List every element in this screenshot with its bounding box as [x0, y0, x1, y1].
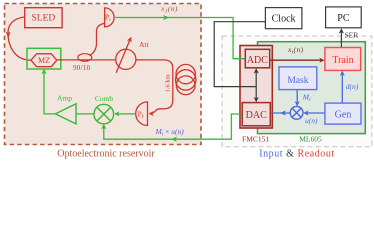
- fiber coil 1.6 km: [176, 64, 195, 83]
- svg-text:d(n): d(n): [346, 82, 359, 91]
- svg-text:DAC: DAC: [246, 110, 267, 121]
- wire Gen to multiplier blue: [304, 112, 325, 114]
- wire SER black Train to PC: [340, 29, 342, 47]
- Mask box: [279, 67, 317, 90]
- svg-text:SER: SER: [345, 31, 359, 40]
- wire MZ to Att red: [57, 59, 116, 61]
- arrowhead on SLED wire: [6, 32, 11, 39]
- wire clock to ADC and DAC: [255, 69, 257, 86]
- wire clock black: [214, 22, 265, 87]
- wire Att to P_f red with fiber spool: [136, 60, 173, 114]
- DAC box: [242, 103, 270, 126]
- PC box: [326, 7, 362, 28]
- svg-text:Mi × u(n): Mi × u(n): [155, 127, 185, 138]
- svg-text:Input & Readout: Input & Readout: [259, 149, 334, 160]
- optoelectronic reservoir dashed box: [5, 4, 202, 145]
- 90/10 coupler loop: [78, 54, 92, 62]
- svg-text:MZ: MZ: [38, 56, 50, 65]
- svg-text:FMC151: FMC151: [242, 134, 269, 143]
- svg-text:Mask: Mask: [287, 76, 308, 86]
- svg-text:1.6 km: 1.6 km: [164, 74, 171, 92]
- svg-text:Gen: Gen: [335, 109, 352, 120]
- wire x1(n) green P_r to ADC: [115, 18, 244, 59]
- Clock box: [265, 8, 302, 29]
- svg-text:SLED: SLED: [32, 14, 56, 24]
- svg-text:ADC: ADC: [247, 55, 268, 66]
- MZ modulator: [27, 48, 61, 69]
- photodiode P_r: [105, 8, 115, 27]
- wire Amp to MZ green: [44, 70, 55, 114]
- ADC box: [245, 49, 269, 68]
- FMC151 board box: [240, 46, 272, 129]
- svg-text:Comb: Comb: [95, 94, 114, 103]
- photodiode P_f: [136, 102, 148, 126]
- ML605 board box: [258, 42, 366, 134]
- svg-text:90/10: 90/10: [73, 64, 91, 72]
- wire Comb to Amp green: [76, 113, 94, 115]
- svg-text:Train: Train: [332, 55, 353, 66]
- wire Mi u(n) green DAC to Comb: [104, 114, 242, 139]
- wire Gen to Train blue d(n): [341, 72, 343, 103]
- attenuator Att: [116, 49, 136, 69]
- svg-text:Amp: Amp: [57, 93, 72, 102]
- svg-text:u(n): u(n): [305, 116, 318, 125]
- Gen box: [325, 103, 361, 124]
- svg-text:Clock: Clock: [272, 13, 296, 24]
- svg-text:x1(n): x1(n): [160, 4, 178, 15]
- svg-text:xi(n): xi(n): [287, 45, 304, 56]
- wire multiplier to DAC blue: [271, 112, 290, 114]
- svg-text:Att: Att: [139, 40, 150, 49]
- multiplier node blue: [290, 106, 303, 119]
- Comb combiner: [94, 104, 114, 124]
- SLED box: [25, 8, 62, 28]
- Train box: [325, 48, 361, 71]
- wire ADC to Train dark red: [270, 59, 324, 61]
- svg-text:Optoelectronic reservoir: Optoelectronic reservoir: [57, 149, 155, 160]
- wire coupler to P_r red: [90, 23, 105, 55]
- wire Mask to multiplier blue: [296, 90, 298, 106]
- amplifier Amp: [55, 104, 76, 124]
- wire SLED to MZ red: [8, 17, 31, 60]
- svg-text:ML605: ML605: [299, 134, 322, 143]
- svg-text:PC: PC: [337, 13, 350, 24]
- wire P_f to Comb green: [115, 113, 135, 115]
- input readout dashed box: [222, 36, 372, 147]
